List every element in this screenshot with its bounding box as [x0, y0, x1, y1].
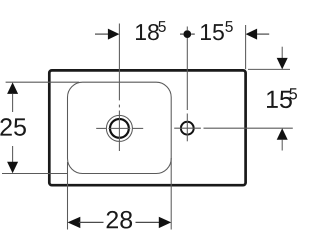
down arrow [281, 47, 283, 59]
left side dimension 25 [2, 82, 79, 173]
drain centerline horizontal [96, 127, 143, 129]
bottom dimension 28 [68, 158, 172, 230]
label 15.5 top [201, 21, 233, 40]
dimension dot at tap centre [180, 27, 195, 39]
left extension line [67, 162, 69, 230]
top extension line [6, 81, 79, 83]
label 18.5 [136, 21, 166, 40]
drain outer circle [106, 115, 132, 141]
label 28 [107, 211, 132, 229]
drain centerline vertical [118, 24, 120, 152]
up arrow [277, 128, 288, 140]
label 15.5 right [267, 88, 297, 108]
down arrow [12, 146, 14, 162]
label 25 [0, 118, 26, 136]
washbasin outer outline [49, 70, 245, 185]
tap hole centerline vertical [186, 38, 188, 141]
right extension line [170, 158, 172, 230]
tap hole centerline horizontal + extension to right dimension [174, 127, 293, 129]
drain inner circle [110, 119, 129, 138]
right side dimension 15.5 [248, 47, 290, 151]
top dimension line left segment with arrow (18.5 start) [95, 29, 119, 40]
extension line at basin right edge (top) [245, 25, 247, 69]
tap hole circle [181, 122, 194, 135]
bottom extension line [2, 173, 68, 175]
right arrow [136, 221, 160, 223]
top extension line from corner [248, 68, 290, 70]
top dimension right arrow (15.5 end) [246, 29, 270, 40]
left arrow [68, 217, 81, 228]
basin bowl (inner rounded rectangle) [68, 82, 172, 173]
up arrow [7, 82, 18, 94]
